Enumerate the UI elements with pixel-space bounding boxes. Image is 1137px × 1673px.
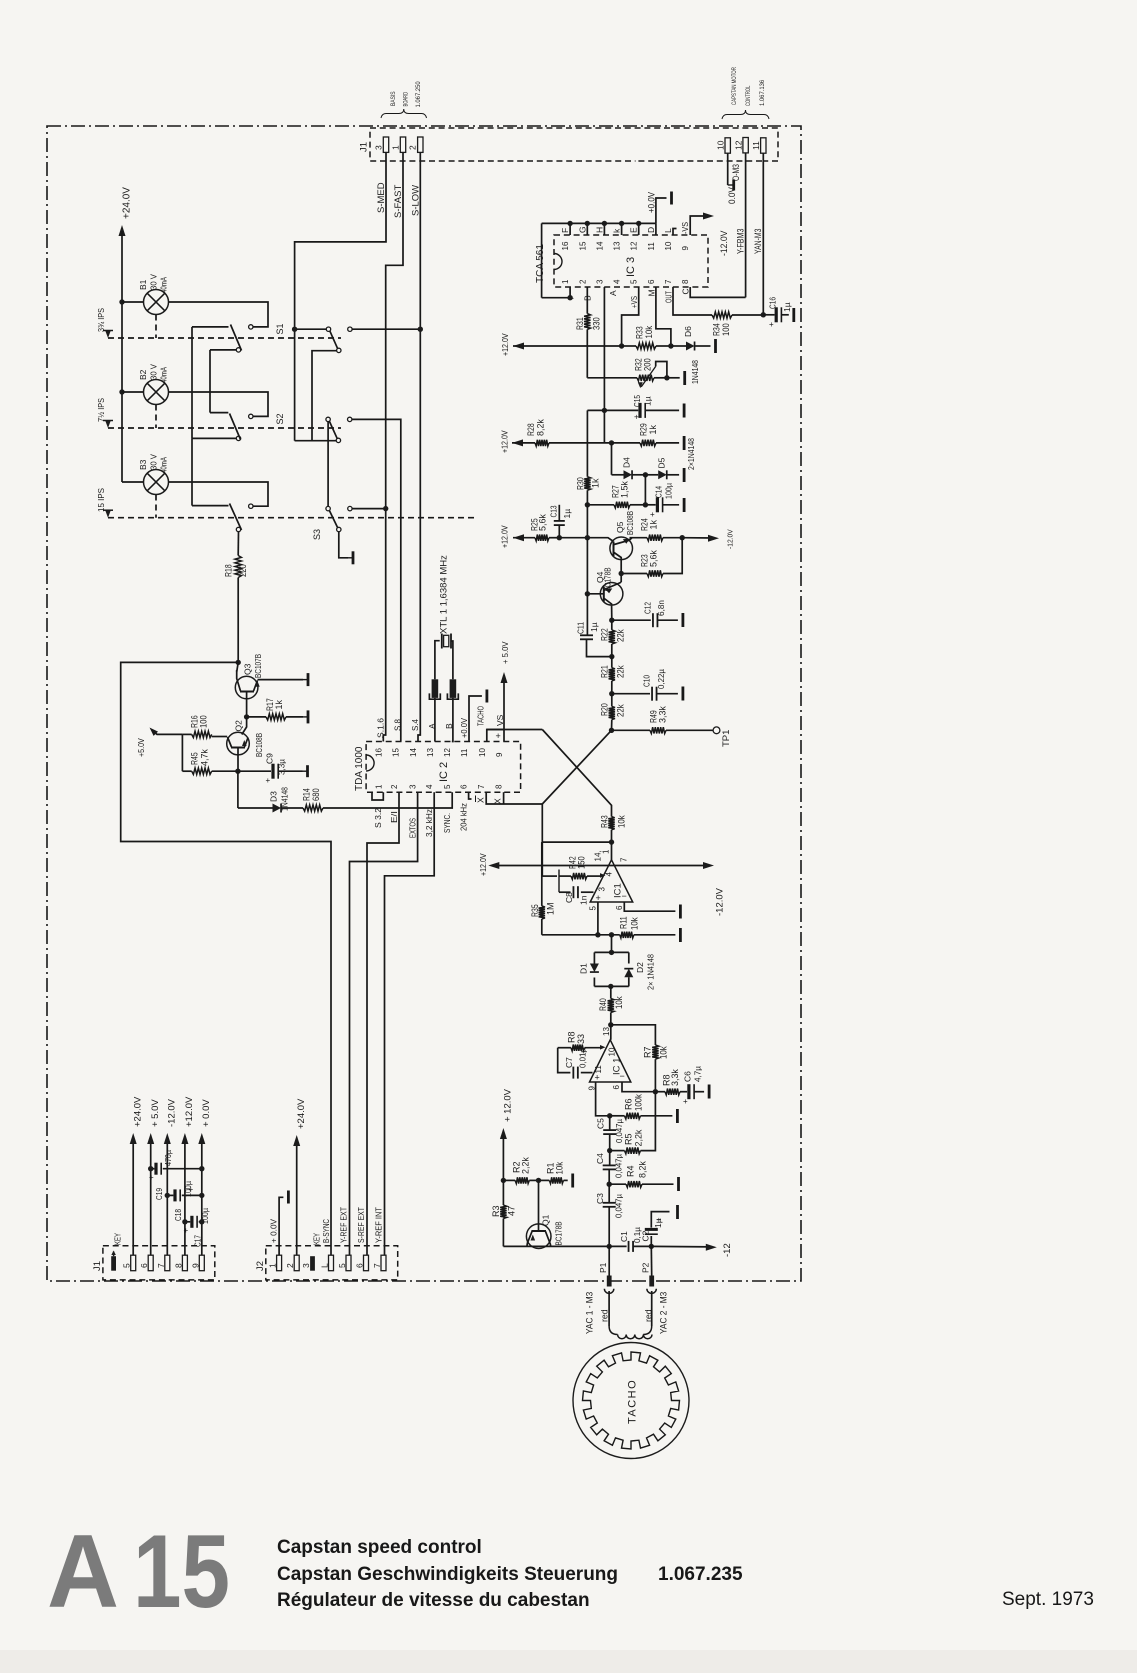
- svg-text:C11: C11: [576, 622, 586, 634]
- wire node to R7 branch: [611, 1025, 656, 1045]
- resistor R17 1k: [247, 716, 266, 718]
- svg-text:0,01µ: 0,01µ: [578, 1048, 588, 1068]
- svg-text:S 3.2: S 3.2: [373, 808, 383, 828]
- resistor R24 1k: [630, 537, 648, 539]
- wire IC2 pin 9 VS bracket and +5.0V arrow: [503, 730, 505, 742]
- svg-text:R22: R22: [600, 628, 610, 641]
- mech link 7 1/2 IPS: [155, 405, 157, 429]
- svg-text:150: 150: [577, 856, 587, 869]
- power arrow +12.0V (R28 rail): [512, 439, 523, 446]
- svg-text:10: 10: [478, 748, 487, 757]
- svg-text:BC107B: BC107B: [253, 654, 263, 678]
- connector pin 12 (Y-FBM3): [743, 138, 748, 153]
- svg-text:R8: R8: [567, 1031, 577, 1043]
- svg-text:E/I: E/I: [389, 811, 399, 823]
- svg-text:1µ: 1µ: [589, 622, 599, 632]
- resistor R25 5,6k: [513, 537, 535, 539]
- svg-text:R43: R43: [600, 815, 610, 828]
- svg-text:1k: 1k: [591, 478, 601, 488]
- svg-text:3: 3: [374, 145, 384, 150]
- svg-text:680: 680: [311, 788, 321, 801]
- ground R4: [677, 1177, 680, 1191]
- svg-text:KEY: KEY: [113, 1233, 123, 1245]
- svg-text:TACHO: TACHO: [627, 1379, 639, 1424]
- IC3 top bus F-E pins: [569, 223, 571, 235]
- wire S2b blade end row: [295, 440, 337, 442]
- svg-text:5: 5: [337, 1263, 347, 1268]
- svg-text:15: 15: [578, 241, 587, 250]
- capacitor C19 470u: [151, 1168, 155, 1170]
- svg-text:1.067.136: 1.067.136: [759, 79, 766, 106]
- svg-text:40mA: 40mA: [159, 457, 169, 473]
- svg-text:7½ IPS: 7½ IPS: [96, 398, 106, 422]
- IC2 notch: [366, 755, 374, 771]
- node R21/C10: [609, 691, 614, 696]
- svg-text:1n: 1n: [579, 895, 589, 905]
- svg-text:10k: 10k: [555, 1161, 565, 1174]
- svg-text:4: 4: [605, 872, 614, 877]
- svg-text:100: 100: [721, 323, 731, 336]
- svg-text:+5.0V: +5.0V: [137, 738, 146, 757]
- transistor Q5 BC108B: [610, 537, 633, 560]
- wire IC1a - input to ground: [624, 902, 675, 911]
- svg-text:P1: P1: [598, 1262, 608, 1273]
- node R2/R1/Q1 base: [536, 1178, 541, 1183]
- wire R14 to IC2 pin 5: [323, 792, 452, 808]
- svg-text:+: +: [595, 1073, 600, 1083]
- svg-text:S1: S1: [275, 323, 285, 334]
- potentiometer R32 200: [587, 377, 637, 379]
- svg-text:J2: J2: [255, 1261, 266, 1271]
- svg-text:6: 6: [139, 1263, 149, 1268]
- J2 pin 7: [381, 1255, 386, 1271]
- svg-text:1N4148: 1N4148: [690, 360, 700, 384]
- svg-text:10k: 10k: [644, 325, 654, 338]
- mech link 3 3/4 IPS: [155, 315, 157, 339]
- svg-text:22k: 22k: [616, 665, 626, 678]
- wire IC3 pin 9 -VS to -12.0V arrow: [690, 216, 709, 235]
- node R6 row: [607, 1113, 612, 1118]
- wire trimmer to IC2 pin 12: [452, 698, 453, 742]
- wire J1.5 +24.0V: [132, 1138, 134, 1255]
- resistor R49 3,3k: [612, 729, 651, 731]
- resistor R22 22k: [609, 630, 615, 644]
- wire IC3 pin 1 bracket: [542, 287, 571, 298]
- svg-text:+: +: [769, 320, 774, 329]
- svg-text:30 V: 30 V: [149, 364, 159, 380]
- svg-text:470µ: 470µ: [163, 1150, 173, 1166]
- ground J2.1: [287, 1191, 290, 1204]
- wire IC2 pin 10 TACHO to VS bracket: [487, 730, 504, 742]
- svg-text:+ 5.0V: + 5.0V: [501, 641, 510, 664]
- svg-text:+12.0V: +12.0V: [184, 1096, 195, 1127]
- wire IC3 pin 3 A down to C15 node: [603, 287, 605, 443]
- svg-text:220: 220: [238, 564, 248, 577]
- wire X line down: [541, 804, 543, 876]
- svg-text:10k: 10k: [659, 1046, 669, 1059]
- svg-text:YAN-M3: YAN-M3: [753, 229, 763, 254]
- svg-text:Capstan speed control: Capstan speed control: [277, 1537, 482, 1558]
- svg-text:47: 47: [507, 1206, 517, 1216]
- svg-text:5: 5: [443, 784, 452, 789]
- wire R17 node to Q2 collector: [242, 717, 247, 735]
- svg-text:10k: 10k: [614, 996, 624, 1009]
- svg-text:D5: D5: [657, 457, 667, 468]
- ground IC3 pin D: [670, 192, 673, 205]
- svg-text:KEY: KEY: [312, 1233, 322, 1245]
- node C1/C2: [649, 1244, 654, 1249]
- ground C6: [694, 1091, 704, 1093]
- wire bankA vertical 1: [191, 327, 193, 439]
- svg-text:TDA 1000: TDA 1000: [354, 746, 365, 791]
- svg-text:7: 7: [156, 1263, 166, 1268]
- svg-text:3,3µ: 3,3µ: [277, 759, 287, 775]
- svg-text:12: 12: [734, 140, 744, 150]
- op-amp IC1b triangle: [610, 1025, 612, 1040]
- brace CAPSTAN MOTOR CONTROL: [722, 110, 769, 119]
- svg-text:XTL 1 1,6384 MHz: XTL 1 1,6384 MHz: [439, 555, 450, 634]
- svg-text:R6: R6: [624, 1098, 634, 1110]
- svg-text:X: X: [476, 797, 486, 803]
- svg-text:10: 10: [608, 1047, 617, 1056]
- trimmer capacitor at pin A: [432, 679, 439, 698]
- capacitor C17 100u: [185, 1221, 190, 1223]
- svg-text:D2: D2: [635, 962, 645, 973]
- svg-text:S-REF EXT: S-REF EXT: [356, 1207, 366, 1243]
- wire D6 to ground: [695, 345, 710, 347]
- resistor R21 22k: [611, 657, 613, 668]
- svg-text:R7: R7: [643, 1046, 653, 1058]
- svg-text:+24.0V: +24.0V: [133, 1096, 144, 1127]
- wire YAN-M3 pin11 down to C16 node: [762, 153, 764, 315]
- svg-text:+VS: +VS: [629, 296, 639, 308]
- svg-text:C15: C15: [632, 395, 642, 407]
- wire S2b pivot to S3b pivot: [327, 422, 329, 507]
- capacitor C16 1u: [763, 314, 774, 316]
- node R27/R30: [585, 502, 590, 507]
- svg-text:C19: C19: [154, 1188, 164, 1200]
- svg-text:C16: C16: [768, 297, 778, 309]
- wire D4/D5 node to C14 node: [644, 475, 646, 505]
- wire S-MED vertical to row2: [294, 331, 296, 440]
- J1 pin 7: [165, 1255, 170, 1271]
- crystal XTL1: [441, 634, 443, 649]
- ground R6: [676, 1109, 679, 1123]
- svg-text:B1: B1: [138, 279, 148, 290]
- svg-text:O-M3: O-M3: [731, 164, 741, 181]
- connector J1 pin 1: [400, 137, 405, 152]
- resistor R8 33 feedback: [558, 1047, 571, 1049]
- svg-text:22k: 22k: [616, 629, 626, 642]
- resistor R30 1k vertical: [586, 410, 588, 476]
- capacitor C11 1u bracket: [587, 640, 612, 657]
- svg-text:R3: R3: [491, 1205, 501, 1217]
- wire S3b blade to ground: [339, 532, 348, 558]
- wire IC3 pin D to 0.0V ground: [656, 198, 667, 223]
- svg-text:40mA: 40mA: [159, 277, 169, 293]
- node pin5: [595, 932, 600, 937]
- wire S1b blade end to vertical: [312, 351, 337, 441]
- node R32: [664, 375, 669, 380]
- svg-text:R4: R4: [626, 1165, 636, 1177]
- resistor R16 100: [192, 731, 212, 737]
- wire IC2 pin 2 E/I to J2 pin 6: [367, 792, 399, 1255]
- ground 0.0V at pin10: [728, 184, 734, 186]
- power arrow +24.0V: [119, 225, 126, 236]
- svg-text:S3: S3: [312, 529, 322, 540]
- R35/R11 row: [542, 934, 620, 936]
- power rail +12/-12 through IC1a: [493, 865, 709, 867]
- svg-text:1.067.235: 1.067.235: [658, 1564, 743, 1585]
- svg-text:-12: -12: [722, 1243, 733, 1257]
- svg-text:R29: R29: [639, 423, 649, 436]
- wire diagonal R20 node to pin7/8 bracket: [542, 730, 611, 804]
- svg-text:BC108B: BC108B: [254, 733, 264, 757]
- svg-text:6: 6: [647, 279, 656, 284]
- svg-text:Sept. 1973: Sept. 1973: [1002, 1589, 1094, 1610]
- wire IC2 pins 7,8 bracket: [486, 792, 542, 804]
- ground D6: [714, 339, 717, 353]
- node S-MED to S1b: [292, 327, 297, 332]
- svg-text:+12.0V: +12.0V: [501, 333, 510, 356]
- lamp B2 30V 40mA: [144, 380, 169, 405]
- svg-text:10k: 10k: [630, 917, 640, 930]
- wire Q3 base down to R17 node: [246, 692, 248, 717]
- svg-text:2: 2: [390, 784, 399, 789]
- svg-text:−: −: [622, 891, 627, 901]
- svg-text:C8: C8: [564, 892, 574, 903]
- svg-text:200: 200: [643, 358, 653, 371]
- ground R29: [683, 436, 686, 450]
- wire IC1a output to node: [611, 842, 613, 860]
- svg-text:R30: R30: [576, 477, 586, 490]
- wire J1.8 +12.0V: [184, 1138, 186, 1255]
- svg-text:11: 11: [460, 748, 469, 757]
- svg-text:IC 3: IC 3: [625, 257, 637, 277]
- svg-text:1µ: 1µ: [643, 396, 653, 406]
- resistor R5 2,2k: [610, 1150, 625, 1152]
- svg-text:red: red: [600, 1309, 610, 1322]
- svg-text:5: 5: [122, 1263, 132, 1268]
- svg-text:+: +: [149, 1173, 154, 1182]
- svg-text:C5: C5: [596, 1118, 606, 1129]
- wire IC3 pin 5 +VS step: [622, 287, 639, 346]
- resistor R27 1,5k: [630, 504, 645, 506]
- wire IC1a + input down: [597, 902, 599, 935]
- svg-text:6: 6: [615, 905, 624, 910]
- svg-text:3,2 kHz: 3,2 kHz: [424, 809, 434, 837]
- svg-text:+: +: [189, 1185, 194, 1194]
- svg-text:CAPSTAN MOTOR: CAPSTAN MOTOR: [731, 67, 738, 105]
- svg-text:+: +: [650, 510, 655, 519]
- svg-text:D3: D3: [269, 791, 279, 802]
- svg-text:+12.0V: +12.0V: [501, 525, 510, 548]
- wire S2 contact to IC2 pin 15: [352, 419, 401, 741]
- resistor R29 1k: [640, 440, 656, 446]
- IC U2 TDA1000 dashed box: [366, 742, 520, 793]
- transistor Q1 BC178B: [526, 1224, 551, 1249]
- svg-text:A: A: [608, 290, 618, 296]
- resistor R8 3,3k: [665, 1089, 680, 1095]
- wire IC2 pin 1 stub: [372, 792, 383, 800]
- wire crystal to pin B trimmer: [451, 641, 453, 679]
- svg-text:S.8: S.8: [393, 719, 403, 731]
- capacitor C6 4,7u: [687, 1084, 690, 1099]
- svg-text:1k: 1k: [274, 699, 284, 709]
- svg-text:R11: R11: [619, 916, 629, 929]
- svg-text:0,047µ: 0,047µ: [614, 1154, 624, 1178]
- svg-text:3,3k: 3,3k: [658, 706, 668, 723]
- svg-text:SYNC.: SYNC.: [442, 813, 452, 833]
- transistor Q3 BC107B: [235, 676, 258, 699]
- ground C2: [676, 1205, 679, 1219]
- svg-text:B2: B2: [138, 369, 148, 380]
- node R33/D6: [668, 343, 673, 348]
- svg-text:+: +: [634, 413, 639, 422]
- transistor Q2 BC108B: [227, 732, 250, 755]
- svg-text:R34: R34: [712, 323, 722, 336]
- mech link 15 IPS: [155, 495, 157, 518]
- svg-text:3: 3: [595, 279, 604, 284]
- node C16: [761, 312, 766, 317]
- svg-text:2×1N4148: 2×1N4148: [686, 438, 696, 470]
- svg-text:12: 12: [443, 748, 452, 757]
- svg-text:16: 16: [374, 748, 383, 757]
- node R28/R29/D4: [609, 440, 614, 445]
- svg-text:1: 1: [374, 784, 383, 789]
- node C5/R5: [607, 1148, 612, 1153]
- svg-text:IC 2: IC 2: [438, 762, 450, 782]
- J2 pin 1: [277, 1255, 282, 1271]
- svg-text:TACHO: TACHO: [475, 706, 485, 726]
- svg-text:330: 330: [592, 317, 602, 330]
- node R17: [244, 714, 249, 719]
- wire pin10 to 0.0V ground: [727, 153, 729, 185]
- svg-text:S2: S2: [275, 413, 285, 424]
- wire IC3 pin 7 OUT to R34: [673, 287, 712, 315]
- ground C15: [645, 409, 679, 411]
- IC3 notch: [554, 254, 562, 270]
- svg-text:L: L: [320, 1263, 330, 1268]
- svg-text:15: 15: [392, 748, 401, 757]
- wire bankA vertical 2: [209, 350, 211, 413]
- svg-text:EXTOS: EXTOS: [408, 818, 418, 838]
- svg-text:4,7µ: 4,7µ: [693, 1066, 703, 1082]
- svg-text:7: 7: [620, 857, 629, 862]
- node S1b S-LOW junction: [418, 327, 423, 332]
- svg-text:6,8n: 6,8n: [656, 600, 666, 616]
- power arrow +12.0V (Q1): [500, 1128, 507, 1139]
- wire IC2 pin 11 to ground: [469, 696, 482, 742]
- resistor R2 2,2k: [503, 1179, 515, 1181]
- wire S-MED from J1.3: [295, 152, 386, 327]
- svg-text:10k: 10k: [617, 815, 627, 828]
- svg-text:S-FAST: S-FAST: [393, 185, 404, 218]
- switch S2b: [326, 417, 330, 421]
- wire trimmer to crystal: [435, 641, 440, 680]
- capacitor C3 0,047u: [608, 1184, 610, 1202]
- resistor R1 10k: [539, 1179, 550, 1181]
- wire IC3 pin 10 L stub: [673, 229, 677, 236]
- svg-text:C7: C7: [564, 1057, 574, 1068]
- svg-text:1.067.250: 1.067.250: [415, 81, 422, 108]
- tacho wheel: [573, 1343, 689, 1459]
- wire R18 to Q3 base node: [237, 578, 239, 663]
- wire node down to D4: [611, 443, 613, 475]
- IC U3 TCA561 dashed box: [554, 235, 708, 287]
- wire P1 to coil: [608, 1291, 610, 1326]
- J1 pin 8: [182, 1255, 187, 1271]
- resistor R11 10k: [620, 932, 634, 938]
- lamp B1 30V 40mA: [144, 290, 169, 315]
- diode D5: [645, 474, 658, 476]
- wire J1.7 -12.0V: [166, 1138, 168, 1255]
- svg-text:C4: C4: [595, 1153, 605, 1164]
- svg-text:TCA 561: TCA 561: [535, 244, 546, 283]
- node B2 junction: [119, 389, 124, 394]
- svg-text:Q3: Q3: [243, 663, 253, 675]
- svg-text:+24.0V: +24.0V: [296, 1098, 307, 1129]
- capacitor C1 0,1u: [609, 1245, 626, 1247]
- resistor R6 100k: [610, 1115, 625, 1117]
- svg-text:10: 10: [716, 140, 726, 150]
- svg-text:P2: P2: [641, 1262, 651, 1273]
- ground IC1a pin6: [679, 905, 682, 919]
- svg-text:BC178B: BC178B: [603, 567, 613, 591]
- switch S1b: [326, 327, 330, 331]
- J1 key pin: [111, 1256, 116, 1271]
- svg-text:M: M: [647, 289, 657, 296]
- svg-text:3: 3: [409, 784, 418, 789]
- switch S1a: [249, 325, 253, 329]
- svg-text:10: 10: [664, 241, 673, 250]
- svg-text:16: 16: [561, 241, 570, 250]
- svg-text:3¾ IPS: 3¾ IPS: [96, 308, 106, 332]
- svg-text:8: 8: [681, 279, 690, 284]
- wire R31 to R32 row: [586, 329, 588, 377]
- svg-text:-12.0V: -12.0V: [167, 1098, 178, 1127]
- svg-text:C3: C3: [595, 1193, 605, 1204]
- wire R30 rail down to C11: [586, 538, 588, 636]
- svg-text:2,2k: 2,2k: [634, 1129, 644, 1146]
- svg-text:CONTROL: CONTROL: [745, 85, 752, 106]
- node C14: [643, 502, 648, 507]
- svg-text:R40: R40: [598, 998, 608, 1011]
- wire J2.1 +0.0V stub: [279, 1197, 283, 1255]
- svg-text:J1: J1: [92, 1261, 103, 1271]
- svg-text:Q5: Q5: [615, 521, 625, 533]
- wire Q5 emitter to Q4: [620, 560, 622, 582]
- svg-text:3: 3: [598, 887, 607, 892]
- wire Q4 collector down to C12 node: [611, 606, 613, 620]
- svg-text:14: 14: [595, 241, 604, 250]
- switch S2a: [249, 414, 253, 418]
- svg-text:1M: 1M: [546, 902, 556, 915]
- svg-text:Y-REF EXT: Y-REF EXT: [339, 1207, 349, 1243]
- svg-text:H: H: [594, 227, 604, 233]
- svg-text:OUT: OUT: [664, 291, 674, 303]
- svg-text:BC178B: BC178B: [554, 1221, 564, 1245]
- J1 pin 9: [199, 1255, 204, 1271]
- svg-text:B3: B3: [138, 459, 148, 470]
- svg-text:Régulateur de vitesse du cabes: Régulateur de vitesse du cabestan: [277, 1590, 590, 1611]
- svg-text:-12.0V: -12.0V: [728, 529, 735, 549]
- svg-text:-VS: -VS: [680, 222, 690, 234]
- svg-text:14: 14: [409, 748, 418, 757]
- lamp B3 30V 40mA: [144, 470, 169, 495]
- node Q2 emitter: [235, 769, 240, 774]
- ground D5: [667, 474, 679, 476]
